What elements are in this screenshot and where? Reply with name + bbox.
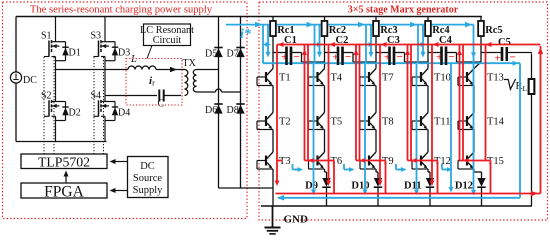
capacitor C5	[481, 52, 501, 54]
wire: stage 5 to diode	[473, 169, 475, 172]
svg-text:T5: T5	[331, 117, 343, 128]
wire: load branch bottom	[531, 94, 533, 206]
red right vert	[540, 46, 542, 194]
red outer vert stage 2	[359, 45, 361, 161]
red base run stage 5	[460, 160, 491, 162]
cyan drop B stage 3	[370, 25, 372, 54]
resistor Rc4 body	[425, 21, 431, 36]
red base run stage 2	[305, 160, 335, 162]
red left arrow stage 4	[433, 42, 439, 47]
right box: 3x5 stage Marx generator (dashed red)	[259, 2, 548, 220]
cyan bus i*	[226, 24, 474, 26]
wire: rectifier bottom to marx ground	[219, 187, 273, 189]
pulse waveform glyph	[504, 79, 516, 89]
wire: rectifier left leg	[218, 17, 220, 189]
svg-text:D4: D4	[118, 108, 130, 119]
cyan cap-bottom run stage 4	[418, 62, 469, 64]
wire: stage 5 column top	[473, 68, 475, 70]
svg-text:DC: DC	[140, 161, 155, 172]
svg-text:−: −	[294, 51, 300, 63]
cyan arrow on bus stage 2	[307, 22, 314, 28]
wire	[324, 86, 326, 113]
stage5 jog resistor to column	[480, 53, 482, 63]
wire: inductor to TX with ir arrow	[156, 69, 185, 71]
transistor T4	[316, 72, 318, 82]
transistor T8	[368, 116, 370, 126]
red top line	[277, 44, 541, 46]
ground symbol	[272, 206, 274, 227]
wire	[272, 86, 274, 113]
cyan drop A stage 4	[417, 25, 419, 64]
wire: stage 3 column top	[375, 53, 377, 69]
cyan arrow on bus stage 4	[410, 22, 417, 28]
left box: series-resonant charging power supply (dashed red)	[3, 2, 248, 219]
red base run stage 3	[356, 160, 386, 162]
svg-text:T1: T1	[279, 73, 291, 84]
wire: stage 1 column to ground bus	[272, 169, 274, 206]
svg-text:The series-resonant charging p: The series-resonant charging power suppl…	[30, 5, 213, 16]
red outer vert stage 1	[307, 45, 309, 161]
wire: stage 1 column top	[272, 53, 274, 69]
capacitor C3 plates	[388, 47, 390, 66]
box TLP5702	[21, 154, 107, 169]
svg-text:TX: TX	[183, 58, 197, 69]
arrow DC supply to TLP5702	[112, 161, 128, 163]
svg-text:D2: D2	[69, 108, 81, 119]
wire: diode D11 to ground bus	[429, 188, 431, 206]
wire: stage 2 to diode	[324, 169, 326, 172]
cyan bus end arrow	[465, 22, 472, 28]
red drop to bus stage 2	[333, 161, 335, 194]
svg-text:DC: DC	[23, 75, 37, 86]
wire: top rail	[16, 16, 482, 18]
capacitor C4 plates	[440, 47, 442, 66]
cyan arrow on bus stage 1	[255, 22, 262, 28]
transistor T3	[265, 156, 267, 166]
cyan stage5 drop to bottom	[473, 25, 475, 193]
DC source	[10, 72, 21, 83]
wire: rectifier right leg	[240, 17, 242, 189]
svg-text:T10: T10	[434, 73, 451, 84]
svg-text:S3: S3	[91, 31, 102, 42]
wire	[427, 130, 429, 153]
svg-text:T6: T6	[331, 156, 343, 167]
resistor Rc2	[324, 17, 326, 22]
red col vert stage 3	[379, 45, 381, 184]
wire: diode D9 to ground bus	[326, 188, 328, 206]
wire: load branch top	[531, 54, 533, 80]
wire	[272, 130, 274, 153]
transistor T14	[466, 116, 468, 126]
resistor Rc1	[272, 17, 274, 22]
cyan drop B stage 1	[267, 25, 269, 54]
resistor Rc3 body	[373, 21, 379, 36]
red drop to bus stage 4	[437, 161, 439, 194]
red up arrow stage 4	[459, 45, 461, 161]
wire: secondary top lead	[197, 69, 219, 71]
cyan stage4 extra drop	[450, 63, 452, 190]
svg-text:C5: C5	[498, 37, 511, 48]
svg-text:−: −	[345, 51, 351, 63]
capacitor C1	[273, 52, 286, 54]
diode D8	[236, 103, 244, 105]
cyan cap-bottom run stage 1	[263, 62, 314, 64]
resistor Rc2 body	[322, 21, 328, 36]
cyan drop A stage 3	[365, 25, 367, 64]
svg-text:GND: GND	[284, 214, 309, 226]
diode D6	[214, 103, 222, 105]
transistor T6	[316, 156, 318, 166]
red up arrow stage 1	[304, 45, 306, 161]
transformer TX	[185, 70, 188, 77]
svg-text:C: C	[158, 99, 165, 110]
wire: diode D10 to ground bus	[377, 188, 379, 206]
red left arrow stage 2	[329, 42, 335, 47]
ground bus	[261, 205, 532, 207]
transistor T13	[466, 72, 468, 82]
red left arrow stage 1	[278, 42, 284, 47]
svg-text:D8: D8	[227, 105, 239, 116]
transistor T10	[420, 72, 422, 82]
wire: node B wire	[105, 95, 157, 97]
wire: secondary bottom lead with hop	[197, 91, 216, 93]
red outer vert stage 3	[410, 45, 412, 161]
box DC Source Supply	[128, 157, 169, 198]
wire	[473, 86, 475, 113]
svg-text:T3: T3	[279, 156, 291, 167]
transistor T1	[265, 72, 267, 82]
gate dotted lines S3/S4	[93, 57, 95, 154]
svg-text:−: −	[449, 51, 455, 63]
wire: stage 3 to diode	[375, 169, 377, 172]
svg-text:D6: D6	[205, 105, 217, 116]
resonant capacitor C	[158, 90, 160, 102]
arrow DC supply to FPGA	[112, 190, 128, 192]
wire	[427, 86, 429, 113]
svg-text:Supply: Supply	[133, 185, 164, 196]
svg-text:−: −	[397, 51, 403, 63]
resistor Rc3	[375, 17, 377, 22]
diode D9	[322, 178, 330, 187]
wire: bottom rail of bridge	[16, 141, 107, 143]
wire: S3 drain from rail	[104, 17, 106, 36]
LC Resonant Circuit label box	[144, 24, 191, 46]
transistor T7	[368, 72, 370, 82]
cyan base elbow stage 3	[343, 164, 345, 170]
svg-text:TLP5702: TLP5702	[38, 155, 90, 170]
cyan drop B stage 2	[319, 25, 321, 54]
red outer vert stage 4	[462, 45, 464, 161]
switch S4 with diode D4	[104, 95, 106, 101]
switch S3 with diode D3	[104, 36, 106, 42]
resistor Rc1 body	[270, 21, 276, 36]
resistor Rc4	[427, 17, 429, 22]
wire: node A vertical S1-S2	[55, 61, 57, 96]
transistor T12	[420, 156, 422, 166]
wire: node A to inductor	[56, 69, 129, 71]
svg-text:D3: D3	[118, 48, 130, 59]
cyan base elbow stage 2	[292, 164, 294, 170]
cyan drop A stage 1	[262, 25, 264, 64]
inductor L	[128, 66, 135, 70]
svg-text:T9: T9	[382, 156, 394, 167]
svg-text:T13: T13	[487, 73, 504, 84]
capacitor C4	[428, 52, 441, 54]
wire	[473, 130, 475, 153]
switch S2 with diode D2	[55, 95, 57, 101]
svg-text:S2: S2	[41, 90, 52, 101]
transistor T15	[466, 156, 468, 166]
diode D11	[426, 178, 434, 187]
svg-text:Circuit: Circuit	[153, 35, 182, 46]
diode D7	[236, 47, 244, 49]
svg-text:S4: S4	[91, 90, 102, 101]
red col vert stage 4	[431, 45, 433, 184]
svg-text:FPGA: FPGA	[44, 184, 84, 201]
red bottom bus	[276, 193, 541, 195]
red drop to bus stage 5	[490, 161, 492, 194]
gate dotted lines S1/S2	[43, 57, 45, 154]
transistor T2	[265, 116, 267, 126]
transistor T9	[368, 156, 370, 166]
wire: S1 drain from rail	[55, 17, 57, 36]
wire: stage 2 column top	[324, 53, 326, 69]
cyan drop B stage 4	[422, 25, 424, 54]
diode D10	[374, 178, 382, 187]
cyan inter-stage drop 2	[364, 63, 366, 192]
capacitor C2 plates	[337, 47, 339, 66]
transistor T11	[420, 116, 422, 126]
resistor RL	[529, 79, 535, 94]
svg-text:D5: D5	[205, 49, 217, 60]
svg-text:T15: T15	[487, 156, 504, 167]
switch S1 with diode D1	[55, 36, 57, 42]
svg-text:Source: Source	[133, 173, 162, 184]
red col vert stage 1	[276, 45, 278, 184]
svg-text:T14: T14	[487, 117, 505, 128]
capacitor C2	[325, 52, 338, 54]
cyan load run	[474, 62, 521, 64]
cyan base elbow stage 4	[395, 164, 397, 170]
svg-text:T8: T8	[382, 117, 394, 128]
wire: diode D12 to ground bus	[481, 188, 483, 206]
cyan base elbow stage 5	[441, 164, 443, 170]
resistor Rc5 body	[478, 21, 484, 36]
svg-text:T2: T2	[279, 117, 291, 128]
red drop to bus stage 3	[385, 161, 387, 194]
svg-text:Rc5: Rc5	[485, 25, 503, 36]
wire: left vertical (source branch)	[15, 17, 17, 73]
red col vert stage 2	[328, 45, 330, 184]
box FPGA	[21, 183, 107, 198]
red base run stage 4	[408, 160, 438, 162]
wire: node B vertical S3-S4	[104, 61, 106, 96]
wire: stage 4 column top	[427, 53, 429, 69]
svg-text:D11: D11	[404, 181, 422, 192]
cyan bottom bus	[278, 197, 520, 199]
capacitor C5 plates	[501, 47, 503, 61]
arrow FPGA to TLP5702	[65, 173, 67, 184]
cyan cap-bottom run stage 3	[366, 62, 417, 64]
svg-text:T7: T7	[382, 73, 394, 84]
resistor Rc5	[480, 17, 482, 22]
svg-text:L: L	[130, 54, 137, 65]
capacitor C3	[376, 52, 389, 54]
svg-text:3×5 stage Marx generator: 3×5 stage Marx generator	[348, 5, 459, 16]
capacitor C1 plates	[285, 47, 287, 66]
wire	[375, 86, 377, 113]
cyan inter-stage drop 1	[313, 63, 315, 192]
svg-text:i*: i*	[240, 27, 252, 42]
red up arrow stage 2	[355, 45, 357, 161]
cyan inter-stage drop 3	[416, 63, 418, 192]
svg-text:D7: D7	[227, 49, 239, 60]
LC dashed red box	[126, 59, 182, 106]
diode D12	[477, 178, 485, 187]
red base run stage 1	[277, 160, 283, 162]
transistor T5	[316, 116, 318, 126]
wire	[375, 130, 377, 153]
red left arrow stage 3	[381, 42, 387, 47]
red up arrow stage 3	[407, 45, 409, 161]
cyan cap-bottom run stage 2	[315, 62, 366, 64]
cyan drop A stage 2	[314, 25, 316, 64]
red left arrow stage 5	[486, 42, 492, 47]
cyan stage4 run joins stage5 drop	[469, 62, 474, 64]
red col vert stage 5	[485, 45, 487, 162]
svg-text:S1: S1	[41, 31, 52, 42]
wire: S4 source to bottom rail	[104, 121, 106, 142]
svg-text:T4: T4	[331, 73, 343, 84]
resistor RL body	[529, 79, 535, 94]
svg-text:T11: T11	[434, 117, 451, 128]
diode D5	[214, 47, 222, 49]
wire	[324, 130, 326, 153]
wire: stage 4 to diode	[427, 169, 429, 172]
svg-text:D12: D12	[455, 181, 473, 192]
cyan arrow on bus stage 3	[358, 22, 365, 28]
wire: S2 source to bottom rail	[55, 121, 57, 142]
svg-text:D1: D1	[69, 48, 81, 59]
